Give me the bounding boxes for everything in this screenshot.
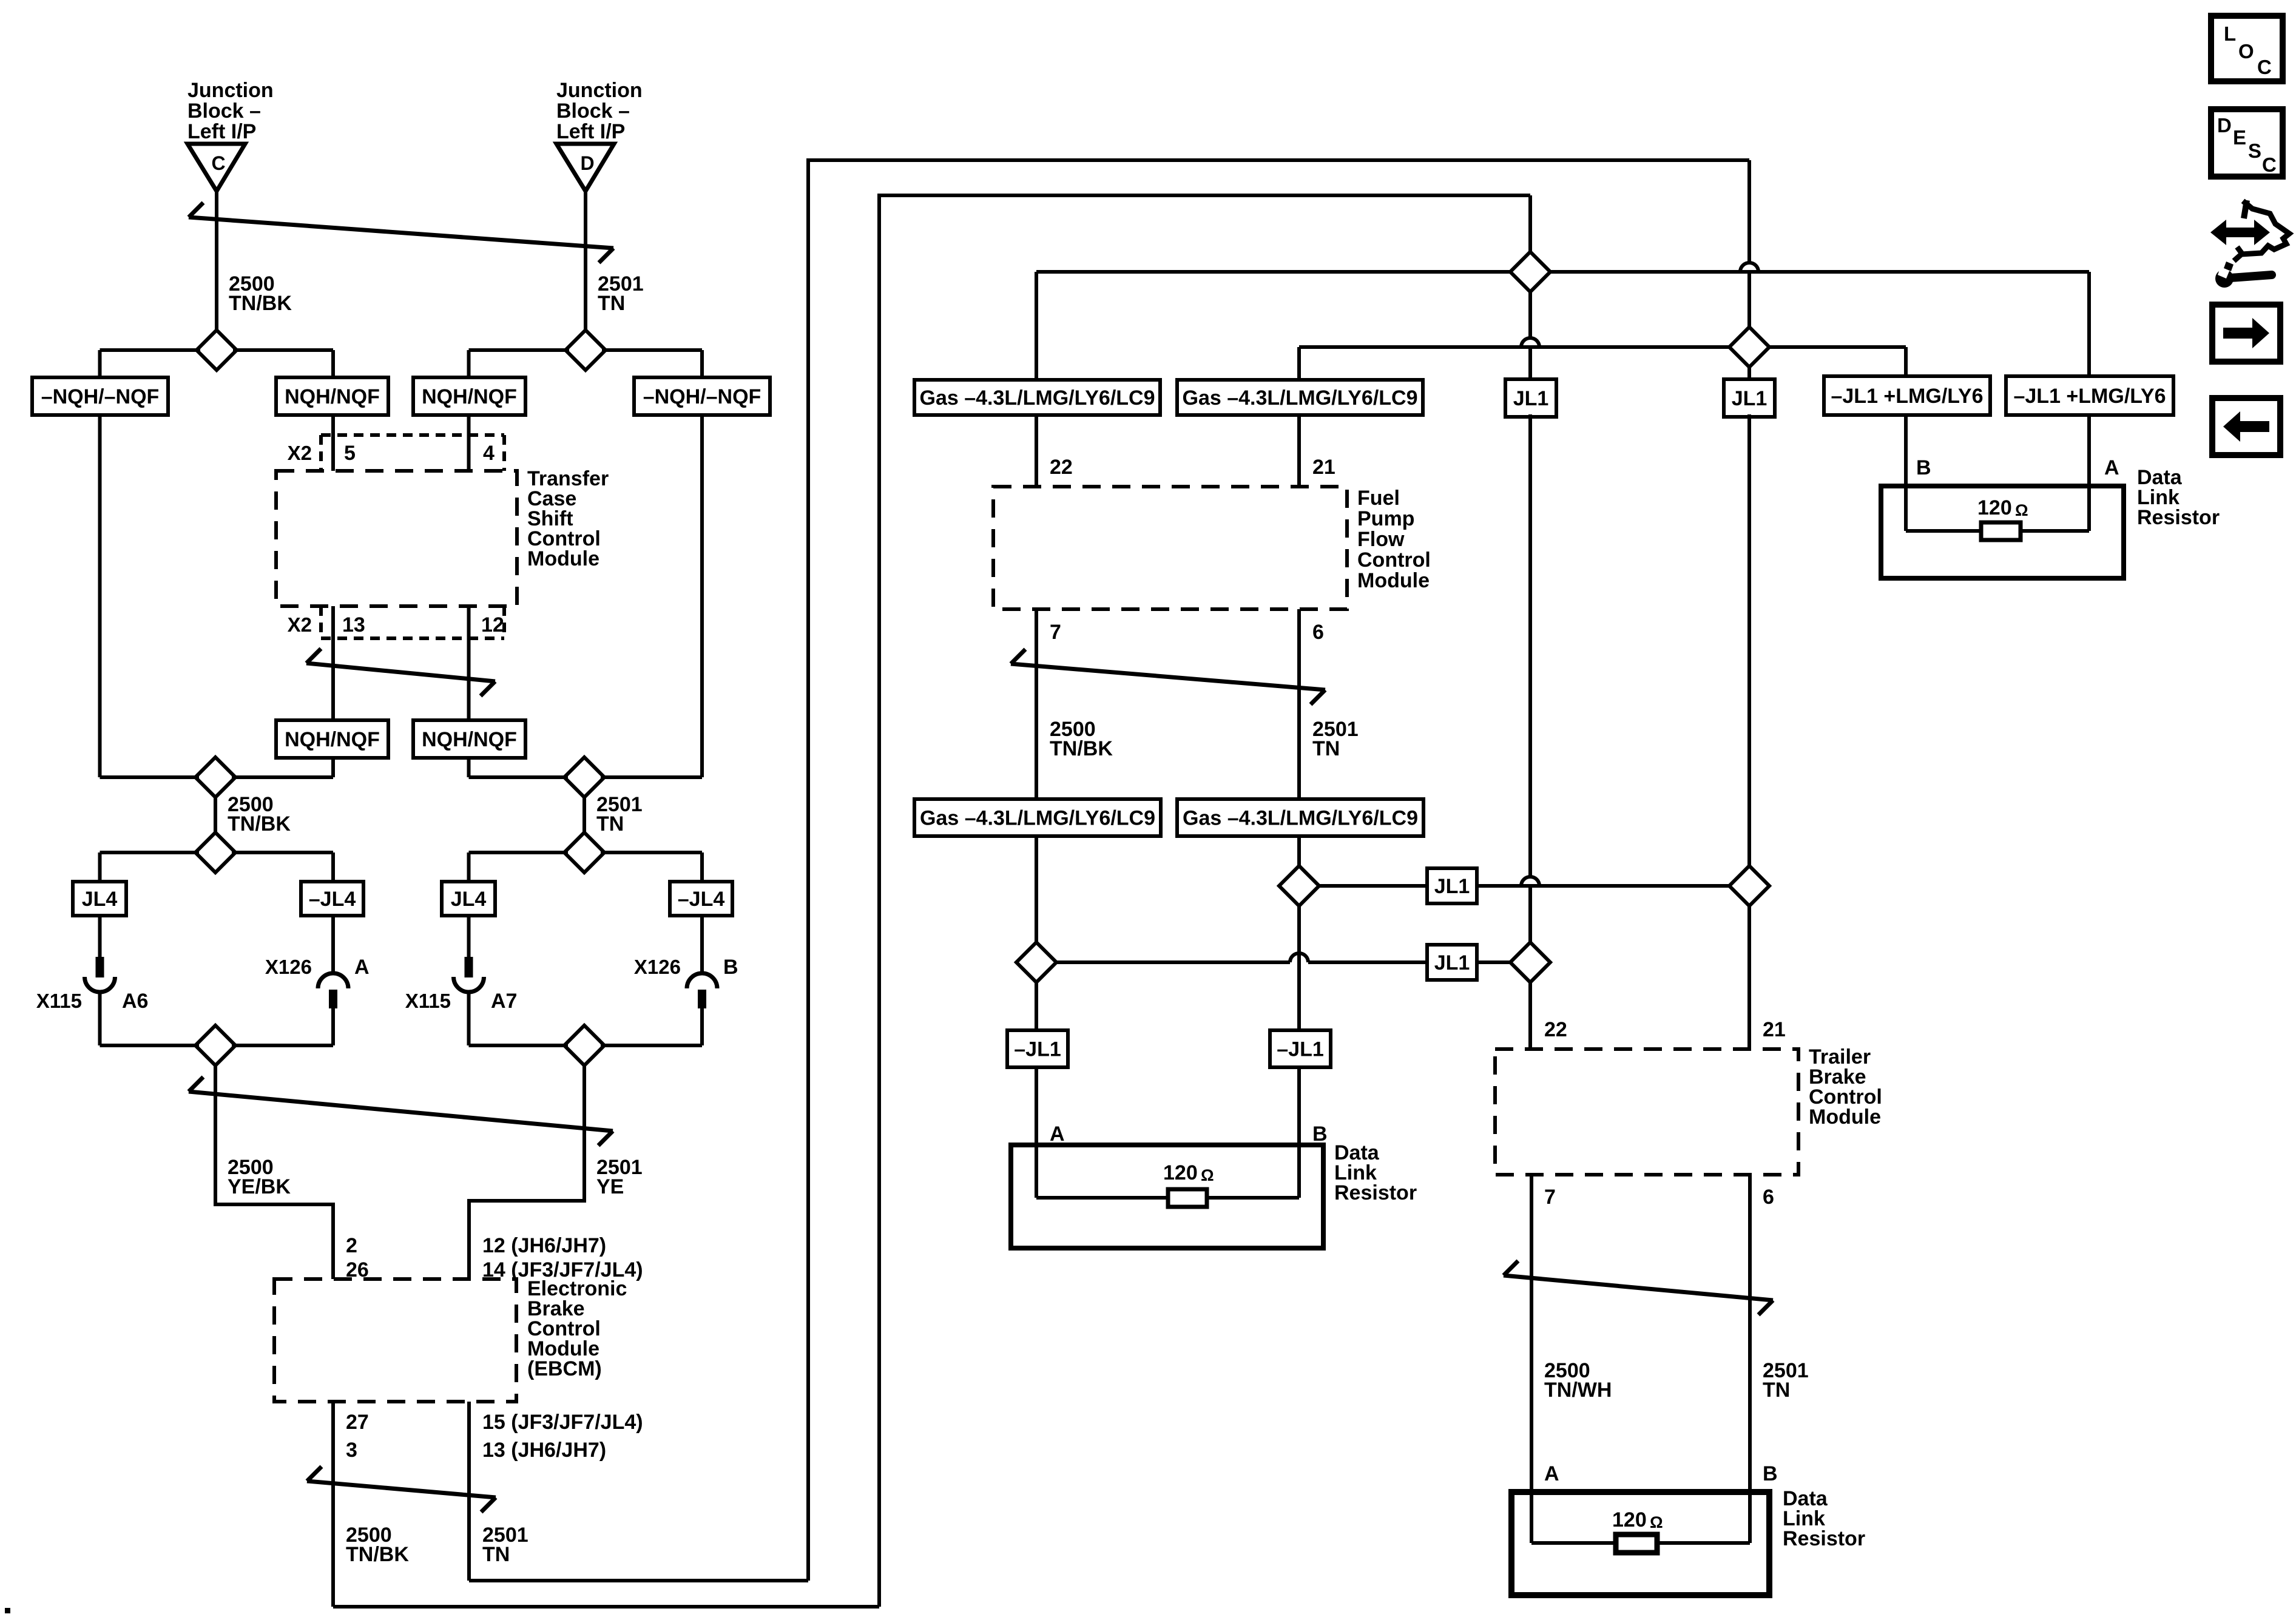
hop of link 2 over wire 2501 (1290, 953, 1308, 962)
splice diamond S4 (564, 757, 604, 797)
svg-text:–JL1: –JL1 (1014, 1038, 1061, 1061)
crossover break symbol top (189, 203, 613, 263)
wire bus D left drop to Gas box (1297, 347, 1301, 380)
option box NQH/NQF 4 (413, 720, 525, 758)
label X115 right (405, 990, 451, 1012)
svg-text:TN: TN (1312, 737, 1340, 760)
svg-text:B: B (1916, 456, 1931, 479)
module label Transfer Case Shift Control Module (527, 467, 609, 570)
svg-text:A: A (1050, 1122, 1065, 1146)
splice diamond S2 (566, 330, 606, 370)
svg-text:TN/BK: TN/BK (228, 812, 291, 836)
svg-text:Resistor: Resistor (1783, 1527, 1865, 1550)
wire bus S5 (100, 851, 334, 854)
pin label B dlr1 (1916, 456, 1931, 479)
wire from junction D (584, 191, 587, 330)
splice diamond M5 (1016, 942, 1056, 982)
pin label 13 (JH6/JH7) (482, 1439, 606, 1462)
connector X115 pin A6 (85, 916, 115, 1045)
wire bus S8 (469, 1044, 703, 1047)
svg-text:12: 12 (481, 613, 504, 636)
pin label A dlr3 (1544, 1462, 1559, 1485)
svg-text:E: E (2233, 126, 2246, 149)
module label Fuel Pump Flow Control Module (1357, 487, 1431, 592)
wire bus C (2500) (1036, 270, 2089, 274)
wire bottom run to bus A (469, 1579, 808, 1582)
wire drop to NQH/NQF box 2 (467, 350, 471, 377)
wire jog to EBCM pin 12/14 (469, 1201, 584, 1279)
label X126 left (265, 956, 312, 978)
svg-text:JL1: JL1 (1434, 875, 1470, 898)
pin 12 label (481, 613, 504, 636)
pin label 6 trailer (1763, 1186, 1774, 1209)
svg-text:13: 13 (342, 613, 365, 636)
wire JL1 right trunk lower (1747, 906, 1751, 1049)
svg-text:–JL4: –JL4 (678, 888, 725, 911)
wire right branch down (700, 415, 704, 777)
svg-text:C: C (2262, 154, 2277, 176)
svg-text:A: A (1544, 1462, 1559, 1485)
wire NQH2 to connector X2 pin 4 (467, 415, 471, 471)
svg-text:TN: TN (598, 292, 625, 315)
pin label 15 (JF3/JF7/JL4) (482, 1411, 643, 1434)
wire left branch down (98, 415, 102, 777)
resistor housing Data Link Resistor right (1881, 486, 2124, 578)
splice diamond S5 (195, 832, 235, 873)
svg-text:X2: X2 (288, 442, 312, 464)
svg-text:120: 120 (1163, 1161, 1198, 1184)
connector X126 pin A (318, 916, 348, 1045)
label X115 left (36, 990, 82, 1012)
svg-text:Ω: Ω (1650, 1513, 1663, 1531)
svg-text:Ω: Ω (1201, 1166, 1214, 1184)
svg-text:A7: A7 (491, 990, 517, 1013)
wire to JL4 right (467, 852, 471, 882)
svg-text:TN/BK: TN/BK (346, 1543, 409, 1566)
svg-text:2: 2 (346, 1234, 357, 1257)
svg-text:JL1: JL1 (1513, 387, 1549, 410)
splice diamond M4 (1729, 866, 1769, 906)
resistor housing Data Link Resistor trailer (1511, 1492, 1769, 1595)
connector X2 strip bottom (321, 606, 504, 638)
svg-text:A6: A6 (122, 990, 148, 1013)
resistor element 120 ohm trailer (1616, 1534, 1657, 1553)
splice diamond M3 (1279, 866, 1319, 906)
svg-text:7: 7 (1544, 1186, 1556, 1209)
svg-text:22: 22 (1050, 456, 1073, 479)
crossover break symbol transfer-case (306, 649, 495, 696)
wire bottom run to bus B (333, 1605, 879, 1609)
svg-text:–JL1: –JL1 (1277, 1038, 1324, 1061)
wire resistor link trailer (1531, 1541, 1750, 1545)
svg-text:3: 3 (346, 1439, 357, 1462)
svg-text:TN/WH: TN/WH (1544, 1379, 1612, 1402)
svg-text:B: B (723, 956, 738, 979)
wire pin12 down (467, 606, 471, 720)
module box Trailer Brake Control Module (1495, 1049, 1798, 1175)
svg-text:120: 120 (1977, 496, 2012, 519)
svg-text:S: S (2248, 140, 2261, 162)
wire resistor link right (1906, 529, 2089, 533)
pin label 26 (346, 1258, 369, 1281)
wire S4 to S6 (582, 797, 586, 832)
svg-text:L: L (2224, 22, 2236, 45)
wire trunk B drop to splice M1 (1528, 195, 1532, 252)
svg-text:15 (JF3/JF7/JL4): 15 (JF3/JF7/JL4) (482, 1411, 643, 1434)
wire label 2500 TN/BK bottom (346, 1524, 409, 1566)
wire M3 to JL1 box (1319, 884, 1427, 888)
wire resistor link mid (1036, 1196, 1299, 1200)
pin label 6 FPFCM (1312, 621, 1324, 644)
svg-text:Fuel: Fuel (1357, 487, 1400, 510)
wire bus S7 (100, 1044, 334, 1047)
pin label 21 trailer (1763, 1018, 1786, 1041)
svg-text:JL4: JL4 (451, 888, 487, 911)
svg-text:21: 21 (1312, 456, 1335, 479)
label A6 (122, 990, 148, 1013)
junction block D label (Junction Block - Left I/P) (556, 79, 643, 143)
svg-text:YE/BK: YE/BK (228, 1175, 291, 1198)
label Data Link Resistor trailer (1783, 1487, 1865, 1550)
svg-text:JL4: JL4 (82, 888, 118, 911)
option box Gas -4.3L/LMG/LY6/LC9 no3 (914, 799, 1161, 836)
wire S7 down (214, 1065, 217, 1206)
svg-text:Gas –4.3L/LMG/LY6/LC9: Gas –4.3L/LMG/LY6/LC9 (1183, 387, 1418, 410)
option box NQH/NQF 1 (276, 377, 388, 415)
svg-text:TN/BK: TN/BK (229, 292, 292, 315)
pin label B dlr3 (1763, 1462, 1778, 1485)
svg-text:Left I/P: Left I/P (556, 120, 625, 143)
wire to resistor pin B right (1904, 415, 1908, 531)
svg-text:Gas –4.3L/LMG/LY6/LC9: Gas –4.3L/LMG/LY6/LC9 (920, 807, 1155, 830)
splice diamond S3 (195, 757, 235, 797)
svg-text:TN: TN (1763, 1379, 1790, 1402)
wire bus S3 (100, 775, 334, 779)
junction block C triangle (187, 144, 245, 191)
svg-text:Gas –4.3L/LMG/LY6/LC9: Gas –4.3L/LMG/LY6/LC9 (1183, 807, 1418, 830)
wire drop to NQH/NQF box 1 (331, 350, 335, 377)
wire label 2501 TN fpfcm (1312, 718, 1359, 760)
option box -JL4 right (670, 882, 732, 916)
wire M3 down to -JL1 box (1297, 906, 1301, 1030)
pin label X2 bottom (288, 613, 312, 636)
wire label 2500 TN/WH (1544, 1359, 1612, 1402)
wire bus left of S1 (100, 348, 201, 352)
option box Gas -4.3L/LMG/LY6/LC9 no2 (1177, 380, 1423, 415)
wire label 2501 TN bottom (482, 1524, 528, 1566)
wire from junction C (215, 191, 218, 330)
svg-text:4: 4 (483, 442, 495, 465)
wire NQH1 to connector X2 pin 5 (331, 415, 335, 471)
value label 120 ohm right (1977, 496, 2028, 519)
wire FPFCM pin7 down (1035, 609, 1038, 799)
wire M6 down to trailer pin 22 (1528, 982, 1532, 1049)
svg-text:Control: Control (1357, 549, 1431, 572)
wire label 2500 TN/BK mid (228, 793, 291, 836)
label Data Link Resistor mid (1334, 1141, 1417, 1204)
svg-text:Resistor: Resistor (2137, 506, 2220, 529)
svg-text:27: 27 (346, 1411, 369, 1434)
svg-text:(EBCM): (EBCM) (527, 1357, 602, 1380)
wire -JL1 right down to resistor B (1297, 1067, 1301, 1198)
option box JL4 left (73, 882, 126, 916)
svg-text:D: D (2217, 114, 2232, 137)
pin 4 label (483, 442, 495, 465)
svg-text:C: C (211, 152, 225, 174)
svg-text:–NQH/–NQF: –NQH/–NQF (41, 385, 160, 408)
wire jog to EBCM pin 2/26 (215, 1204, 333, 1279)
svg-text:B: B (1763, 1462, 1778, 1485)
pin 5 label (344, 442, 356, 465)
module label EBCM (527, 1277, 627, 1380)
splice diamond S7 (195, 1025, 235, 1065)
svg-text:Gas –4.3L/LMG/LY6/LC9: Gas –4.3L/LMG/LY6/LC9 (920, 387, 1155, 410)
wire bus S6 (469, 851, 703, 854)
pin 13 label (342, 613, 365, 636)
svg-text:A: A (2104, 456, 2119, 479)
wire trunk B (2500 TN/BK) (879, 195, 1530, 1607)
svg-text:6: 6 (1312, 621, 1324, 644)
wire Gas1 to FPFCM pin 22 (1035, 415, 1038, 487)
option box -JL1 left (1007, 1030, 1068, 1067)
wire bus D (2501) (1299, 345, 1906, 349)
pin label 2 (346, 1234, 357, 1257)
option box NQH/NQF 2 (413, 377, 525, 415)
option box -NQH/-NQF left (32, 377, 168, 415)
resistor element 120 ohm right (1981, 522, 2021, 540)
pin label 21 FPFCM (1312, 456, 1335, 479)
crossover break symbol trailer (1504, 1261, 1773, 1315)
wire label 2501 TN top (598, 272, 644, 315)
stray dot bottom left (5, 1608, 10, 1613)
wire label 2501 TN trailer (1763, 1359, 1809, 1402)
option box -JL1 +LMG/LY6 left (1824, 376, 1990, 415)
pin label 14 (JF3/JF7/JL4) (482, 1258, 643, 1281)
wire bus C right drop (2087, 272, 2091, 376)
pin label A dlr1 (2104, 456, 2119, 479)
svg-text:Ω: Ω (2015, 501, 2028, 519)
wire drop to -NQH/-NQF box (98, 350, 102, 377)
junction block D triangle (556, 144, 614, 191)
wire trailer pin6 down (1748, 1175, 1752, 1543)
svg-text:D: D (580, 152, 594, 174)
svg-text:120: 120 (1612, 1508, 1647, 1531)
pin label 22 FPFCM (1050, 456, 1073, 479)
wire M5 to hop (1056, 960, 1290, 964)
svg-text:Module: Module (527, 547, 599, 570)
pin label 3 (346, 1439, 357, 1462)
pin label 7 FPFCM (1050, 621, 1061, 644)
icon box arrow right (2212, 305, 2280, 362)
svg-text:NQH/NQF: NQH/NQF (422, 728, 517, 751)
pin label X2 top (288, 442, 312, 464)
wire pin13 down (331, 606, 335, 720)
svg-text:–NQH/–NQF: –NQH/–NQF (643, 385, 761, 408)
svg-text:22: 22 (1544, 1018, 1567, 1041)
option box -JL1 right (1270, 1030, 1331, 1067)
label A (354, 956, 370, 979)
pin label 22 trailer (1544, 1018, 1567, 1041)
hop of JL1 wire over link 1 (1521, 414, 1539, 942)
splice diamond S1 (197, 330, 237, 370)
crossover break symbol FPFCM (1011, 649, 1325, 704)
option box JL4 right (442, 882, 495, 916)
svg-text:7: 7 (1050, 621, 1061, 644)
svg-text:Block –: Block – (187, 100, 261, 123)
icon wrench with arrows (2210, 200, 2289, 288)
option box -JL4 left (301, 882, 363, 916)
label Data Link Resistor right (2137, 466, 2220, 529)
connector X126 pin B (687, 916, 717, 1045)
svg-text:Module: Module (1357, 569, 1430, 592)
svg-text:Resistor: Resistor (1334, 1181, 1417, 1204)
wire Gas2 to FPFCM pin 21 (1297, 415, 1301, 487)
wire trailer pin7 down (1530, 1175, 1533, 1543)
svg-text:NQH/NQF: NQH/NQF (285, 385, 380, 408)
wire hop to JL1 box (1308, 960, 1427, 964)
resistor element 120 ohm mid (1168, 1189, 1207, 1207)
hop of trunk A over bus C (1740, 160, 1758, 327)
wire S3 to S5 (214, 797, 217, 832)
wire bus C left drop to Gas box (1035, 272, 1038, 380)
wire Gas3 down to splice M5 (1035, 836, 1038, 942)
svg-text:Junction: Junction (556, 79, 643, 102)
icon box LOC (2211, 16, 2283, 81)
splice diamond S8 (564, 1025, 604, 1065)
wire bus D right drop (1904, 347, 1908, 376)
option box JL1 mid lower (1427, 945, 1477, 980)
wire bus right of S1 (233, 348, 333, 352)
svg-text:Block –: Block – (556, 100, 630, 123)
svg-text:NQH/NQF: NQH/NQF (285, 728, 380, 751)
module box Transfer Case Shift Control Module (276, 471, 517, 606)
hop of JL1 wire over bus D (1521, 292, 1539, 379)
pin label A dlr2 (1050, 1122, 1065, 1146)
wire label 2501 TN mid (596, 793, 643, 836)
svg-text:C: C (2257, 56, 2272, 78)
wire to -JL4 left (331, 852, 335, 882)
svg-text:Flow: Flow (1357, 528, 1405, 551)
option box Gas -4.3L/LMG/LY6/LC9 no4 (1177, 799, 1423, 836)
svg-text:X115: X115 (36, 990, 82, 1012)
wire trunk A (2501 TN) (808, 160, 1749, 1581)
option box -JL1 +LMG/LY6 right (2006, 376, 2173, 415)
svg-text:YE: YE (596, 1175, 624, 1198)
wire JL1 to splice M4 (1477, 884, 1729, 888)
label A7 (491, 990, 517, 1013)
wire label 2500 TN/BK fpfcm (1050, 718, 1113, 760)
svg-text:B: B (1312, 1122, 1328, 1146)
wire label 2501 YE (596, 1156, 643, 1198)
svg-text:JL1: JL1 (1732, 387, 1768, 410)
option box JL1 upper right (1724, 379, 1775, 417)
svg-text:JL1: JL1 (1434, 951, 1470, 974)
svg-text:X115: X115 (405, 990, 451, 1012)
svg-text:O: O (2238, 40, 2254, 62)
wire FPFCM pin6 down (1297, 609, 1301, 799)
svg-text:X2: X2 (288, 613, 312, 636)
pin label B dlr2 (1312, 1122, 1328, 1146)
connector X115 pin A7 (454, 916, 484, 1045)
wire label 2500 TN/BK top (229, 272, 292, 315)
value label 120 ohm trailer (1612, 1508, 1663, 1531)
label X126 right (634, 956, 681, 978)
option box JL1 upper left (1505, 379, 1556, 417)
wire Gas4 down to splice M3 (1297, 836, 1301, 866)
wire drop to -NQH/-NQF box right (700, 350, 704, 377)
svg-text:X126: X126 (634, 956, 681, 978)
wire M2 to JL1 box (1747, 367, 1751, 379)
wire EBCM pin27 down (331, 1402, 335, 1607)
wire M5 down to -JL1 box (1035, 982, 1038, 1030)
wire bus S4 (469, 775, 703, 779)
wire to -JL4 right (700, 852, 704, 882)
crossover break symbol EBCM top (189, 1077, 613, 1146)
wire NQH4 down (467, 758, 471, 777)
label B (723, 956, 738, 979)
wire bus left of S2 (469, 348, 570, 352)
splice diamond M1 (1510, 252, 1550, 292)
wire -JL1 left down to resistor A (1035, 1067, 1038, 1198)
pin label 12 (JH6/JH7) (482, 1234, 606, 1257)
svg-text:6: 6 (1763, 1186, 1774, 1209)
pin label 27 (346, 1411, 369, 1434)
option box Gas -4.3L/LMG/LY6/LC9 no1 (914, 380, 1160, 415)
connector X2 strip top (321, 435, 504, 471)
module box Fuel Pump Flow Control Module (993, 487, 1347, 609)
wire JL1 to splice M6 (1477, 960, 1510, 964)
splice diamond M2 (1729, 327, 1769, 367)
option box -NQH/-NQF right (634, 377, 770, 415)
svg-text:5: 5 (344, 442, 356, 465)
svg-text:–JL1 +LMG/LY6: –JL1 +LMG/LY6 (2013, 385, 2166, 408)
svg-text:13 (JH6/JH7): 13 (JH6/JH7) (482, 1439, 606, 1462)
svg-text:Module: Module (1809, 1106, 1881, 1129)
svg-text:X126: X126 (265, 956, 312, 978)
wire NQH3 down (331, 758, 335, 777)
wire to JL4 left (98, 852, 102, 882)
wire to resistor pin A right (2087, 415, 2091, 531)
splice diamond S6 (564, 832, 604, 873)
crossover break symbol EBCM bottom (307, 1467, 496, 1512)
junction block C label (Junction Block - Left I/P) (187, 79, 274, 143)
svg-text:21: 21 (1763, 1018, 1786, 1041)
svg-text:TN: TN (596, 812, 624, 836)
svg-text:A: A (354, 956, 370, 979)
wire label 2500 YE/BK (228, 1156, 291, 1198)
icon box arrow left (2212, 398, 2280, 455)
svg-text:Left I/P: Left I/P (187, 120, 256, 143)
splice diamond M6 (1510, 942, 1550, 982)
value label 120 ohm mid (1163, 1161, 1214, 1184)
wire S8 down (582, 1065, 586, 1203)
svg-text:Junction: Junction (187, 79, 274, 102)
pin label 7 trailer (1544, 1186, 1556, 1209)
option box JL1 mid upper (1427, 868, 1477, 903)
option box NQH/NQF 3 (276, 720, 388, 758)
resistor housing Data Link Resistor mid (1011, 1145, 1323, 1248)
wire EBCM pin15 down (467, 1402, 471, 1581)
svg-text:–JL4: –JL4 (309, 888, 356, 911)
svg-text:Pump: Pump (1357, 507, 1414, 530)
wire JL1 right trunk upper (1747, 414, 1751, 866)
module label Trailer Brake Control Module (1809, 1045, 1882, 1129)
wire bus right of S2 (602, 348, 702, 352)
svg-text:12 (JH6/JH7): 12 (JH6/JH7) (482, 1234, 606, 1257)
module box Electronic Brake Control Module (EBCM) (274, 1279, 516, 1402)
svg-text:–JL1 +LMG/LY6: –JL1 +LMG/LY6 (1831, 385, 1983, 408)
svg-text:TN/BK: TN/BK (1050, 737, 1113, 760)
